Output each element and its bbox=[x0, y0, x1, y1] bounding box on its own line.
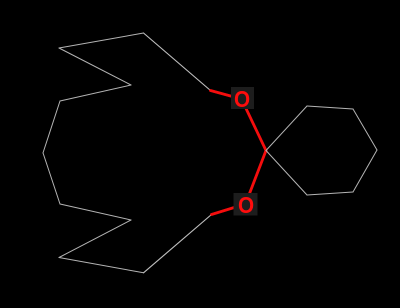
wire macrocycle left: C1-A bbox=[144, 33, 211, 91]
bond O2-C3 red bbox=[246, 151, 267, 205]
wire F-C5 bbox=[144, 215, 212, 273]
label halo O2 bbox=[234, 193, 258, 216]
bond C5-O2 red bbox=[212, 204, 246, 215]
bond O1-C3 red bbox=[242, 99, 267, 151]
svg-text:O: O bbox=[238, 192, 254, 218]
wire C-LP bbox=[43, 101, 60, 153]
label halo O1 bbox=[231, 87, 254, 109]
wire C2-D2 bbox=[60, 204, 131, 220]
cyclohexane v5-v6 bbox=[307, 192, 353, 195]
atom O1 bbox=[234, 86, 250, 112]
wire D2-B2 bbox=[59, 220, 131, 258]
wire LP-C2 bbox=[43, 153, 60, 204]
cyclohexane v4-v5 bbox=[353, 150, 377, 192]
svg-text:O: O bbox=[234, 86, 250, 112]
bond C1-O1 red bbox=[211, 91, 242, 100]
wire A-B bbox=[59, 33, 144, 48]
wire B-D bbox=[59, 48, 131, 85]
wire D-C bbox=[60, 85, 131, 101]
cyclohexane v6-C3 bbox=[266, 151, 307, 196]
cyclohexane v3-v4 bbox=[353, 109, 377, 150]
cyclohexane v2-v3 bbox=[307, 106, 353, 109]
cyclohexane C3-v2 bbox=[266, 106, 307, 151]
atom O2 bbox=[238, 192, 254, 218]
wire B2-F bbox=[59, 258, 144, 273]
